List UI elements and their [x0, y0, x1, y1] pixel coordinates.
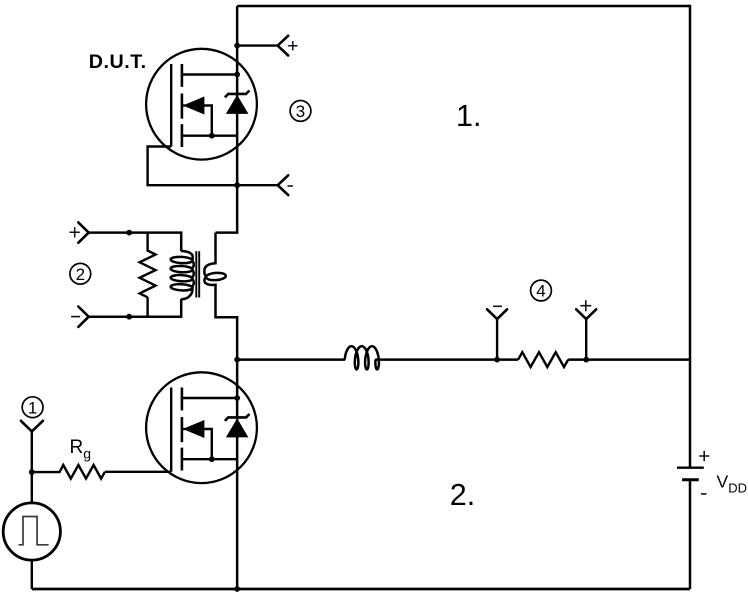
- wire bottom rail: [32, 588, 690, 591]
- wire right rail upper: [689, 5, 692, 467]
- transistor Q1 (D.U.T.) source stub: [182, 134, 237, 136]
- plus sign drain probe: [288, 41, 297, 50]
- wire pulse source to bottom rail: [31, 560, 33, 589]
- circled number 1: [22, 397, 43, 418]
- node minus rail junction: [126, 314, 132, 320]
- svg-text:3: 3: [296, 102, 305, 121]
- resistor R_g: [32, 465, 171, 479]
- circled number 3: [290, 101, 311, 122]
- transistor Q1 (D.U.T.) body stub and arrow: [182, 104, 185, 106]
- node D.U.T. source: [234, 182, 240, 188]
- inductor transformer primary winding: [170, 256, 192, 263]
- wire top rail: [237, 5, 690, 8]
- svg-text:Rg: Rg: [70, 437, 92, 462]
- minus sign source probe: [288, 185, 293, 187]
- wire gate node to pulse source: [31, 472, 33, 503]
- wire shunt right probe: [585, 319, 587, 360]
- diode Q2 body diode (zener): [227, 419, 248, 437]
- transistor Q2 body-source join wire: [203, 429, 212, 459]
- wire main drain bus (top rail to transformer secondary jog): [216, 6, 238, 233]
- plus sign gate drive input: [70, 227, 80, 237]
- svg-text:VDD: VDD: [717, 472, 747, 496]
- transistor Q1 (D.U.T.) drain stub: [182, 73, 237, 75]
- node bottom rail junction: [234, 586, 240, 592]
- plus sign shunt probe: [580, 300, 591, 311]
- svg-text:D.U.T.: D.U.T.: [89, 51, 147, 73]
- node plus rail junction: [126, 230, 132, 236]
- node drain probe tap: [234, 43, 240, 49]
- junction dot Q2 body-source: [209, 456, 215, 462]
- diode Q1 (D.U.T.) body diode (zener): [227, 96, 248, 114]
- inductor transformer secondary winding: [204, 233, 215, 277]
- wire gate drive plus rail: [89, 233, 182, 252]
- terminal fork shunt minus probe: [487, 309, 507, 319]
- transistor Q1 (D.U.T.) body-source join wire: [203, 106, 212, 136]
- wire shunt left probe: [496, 319, 498, 360]
- wire secondary bottom to switch node: [204, 277, 237, 360]
- transistor Q2 source stub: [182, 458, 237, 460]
- svg-text:2.: 2.: [450, 478, 475, 512]
- wire inductor to shunt resistor: [375, 358, 518, 361]
- transistor Q2 body stub and arrow: [182, 428, 185, 430]
- wire switch node to inductor: [237, 358, 345, 361]
- minus sign battery: [701, 493, 707, 495]
- junction dot Q2 drain: [234, 395, 240, 401]
- wire pulse probe to gate node: [31, 431, 33, 472]
- wire shunt to right rail: [568, 358, 690, 361]
- terminal fork gate drive minus input: [78, 307, 88, 327]
- wire lower bus (switch node to bottom rail): [236, 360, 239, 589]
- circled number 4: [531, 280, 552, 301]
- resistor current shunt: [518, 352, 568, 367]
- transistor Q2 channel segments: [181, 388, 184, 471]
- minus sign shunt probe: [493, 305, 502, 307]
- terminal fork pulse input probe: [21, 421, 43, 432]
- svg-text:1: 1: [28, 398, 37, 417]
- transistor Q1 (D.U.T.) gate line: [170, 64, 172, 147]
- terminal fork drain probe: [278, 36, 289, 56]
- battery VDD bottom plate: [682, 478, 699, 481]
- svg-text:1.: 1.: [456, 99, 481, 133]
- transistor Q2 body circle: [146, 372, 257, 483]
- node gate drive junction: [29, 469, 35, 475]
- pulse waveform symbol: [19, 517, 49, 545]
- transistor Q1 (D.U.T.) body circle: [146, 49, 257, 160]
- battery VDD top plate: [677, 467, 704, 469]
- node shunt right probe tap: [583, 357, 589, 363]
- junction dot Q1 (D.U.T.) drain: [234, 72, 240, 78]
- plus sign battery: [699, 451, 709, 461]
- circled number 2: [70, 263, 91, 284]
- resistor gate drive parallel: [140, 233, 156, 317]
- svg-text:2: 2: [76, 265, 85, 284]
- source V1 pulse generator circle: [3, 503, 60, 560]
- transistor Q2 drain stub: [182, 397, 237, 399]
- transistor Q2 gate line: [170, 388, 172, 472]
- transistor Q1 (D.U.T.) channel segments: [181, 64, 184, 147]
- wire D.U.T. gate-source loop: [148, 147, 238, 186]
- svg-text:4: 4: [536, 282, 545, 301]
- terminal fork gate drive plus input: [78, 222, 88, 242]
- wire right rail lower: [689, 481, 692, 589]
- junction dot Q1 (D.U.T.) body-source: [209, 133, 215, 139]
- wire D.U.T. source probe: [237, 184, 278, 186]
- minus sign gate drive input: [71, 316, 80, 318]
- node shunt left probe tap: [494, 357, 500, 363]
- transformer core lines: [196, 251, 199, 297]
- terminal fork shunt plus probe: [576, 309, 596, 319]
- node switch junction: [234, 357, 240, 363]
- inductor parasitic loop inductance: [345, 346, 379, 369]
- wire gate drive minus rail: [89, 299, 182, 317]
- terminal fork source probe: [278, 175, 289, 195]
- wire D.U.T. drain probe: [237, 44, 278, 46]
